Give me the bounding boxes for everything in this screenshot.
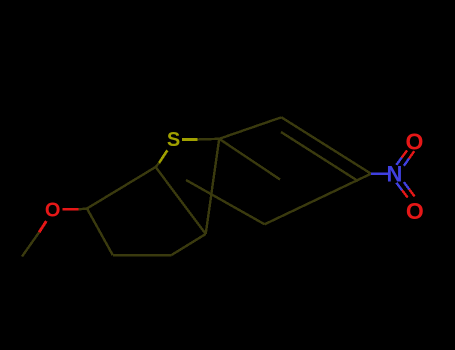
wire ring C6a: bond T-L [87, 167, 156, 209]
bond S-T yellow half [159, 150, 167, 163]
bond S-T carbon half [156, 163, 160, 167]
wire chain: bond X5-X1 [186, 180, 265, 224]
wire chain: double bond inner stroke X3-X4 [281, 132, 358, 181]
bond O-CH3 red half [39, 221, 46, 232]
wire chord from X2 [219, 139, 280, 180]
wire ring: bond R-X2 [206, 139, 220, 234]
wire ring: bond BR-R [171, 234, 205, 255]
bond O-ring red half [62, 208, 78, 211]
N=O top double bond stroke R red half [409, 151, 414, 158]
svg-text:O: O [45, 199, 61, 221]
wire ring: bond R-T [156, 167, 206, 234]
bond N-X4 blue [371, 172, 388, 175]
N=O bottom double bond stroke R red half [409, 189, 414, 196]
svg-text:N: N [387, 162, 403, 187]
N=O bottom double bond stroke L red half [402, 190, 408, 197]
svg-text:S: S [167, 129, 180, 151]
N=O bottom double bond stroke R blue half [404, 182, 409, 189]
wire ring: bond BL-BR [113, 254, 172, 256]
bond O-ring carbon half [79, 207, 87, 210]
wire ring: bond L-BL [87, 209, 113, 256]
N=O top double bond stroke L red half [402, 150, 407, 157]
svg-text:O: O [406, 128, 424, 154]
bond S-X2 carbon half [198, 138, 220, 141]
N=O top double bond stroke L blue half [396, 158, 401, 165]
wire chain: bond X2-X3 [219, 117, 281, 139]
bond S-X2 yellow half [182, 138, 198, 141]
N=O top double bond stroke R blue half [404, 159, 409, 166]
bond O-CH3 carbon half [22, 232, 39, 256]
wire chain: bond X4-X5 [265, 174, 371, 225]
N=O bottom double bond stroke L blue half [396, 183, 402, 190]
svg-text:O: O [406, 198, 424, 224]
wire chain: bond X3-X4 [281, 117, 371, 173]
